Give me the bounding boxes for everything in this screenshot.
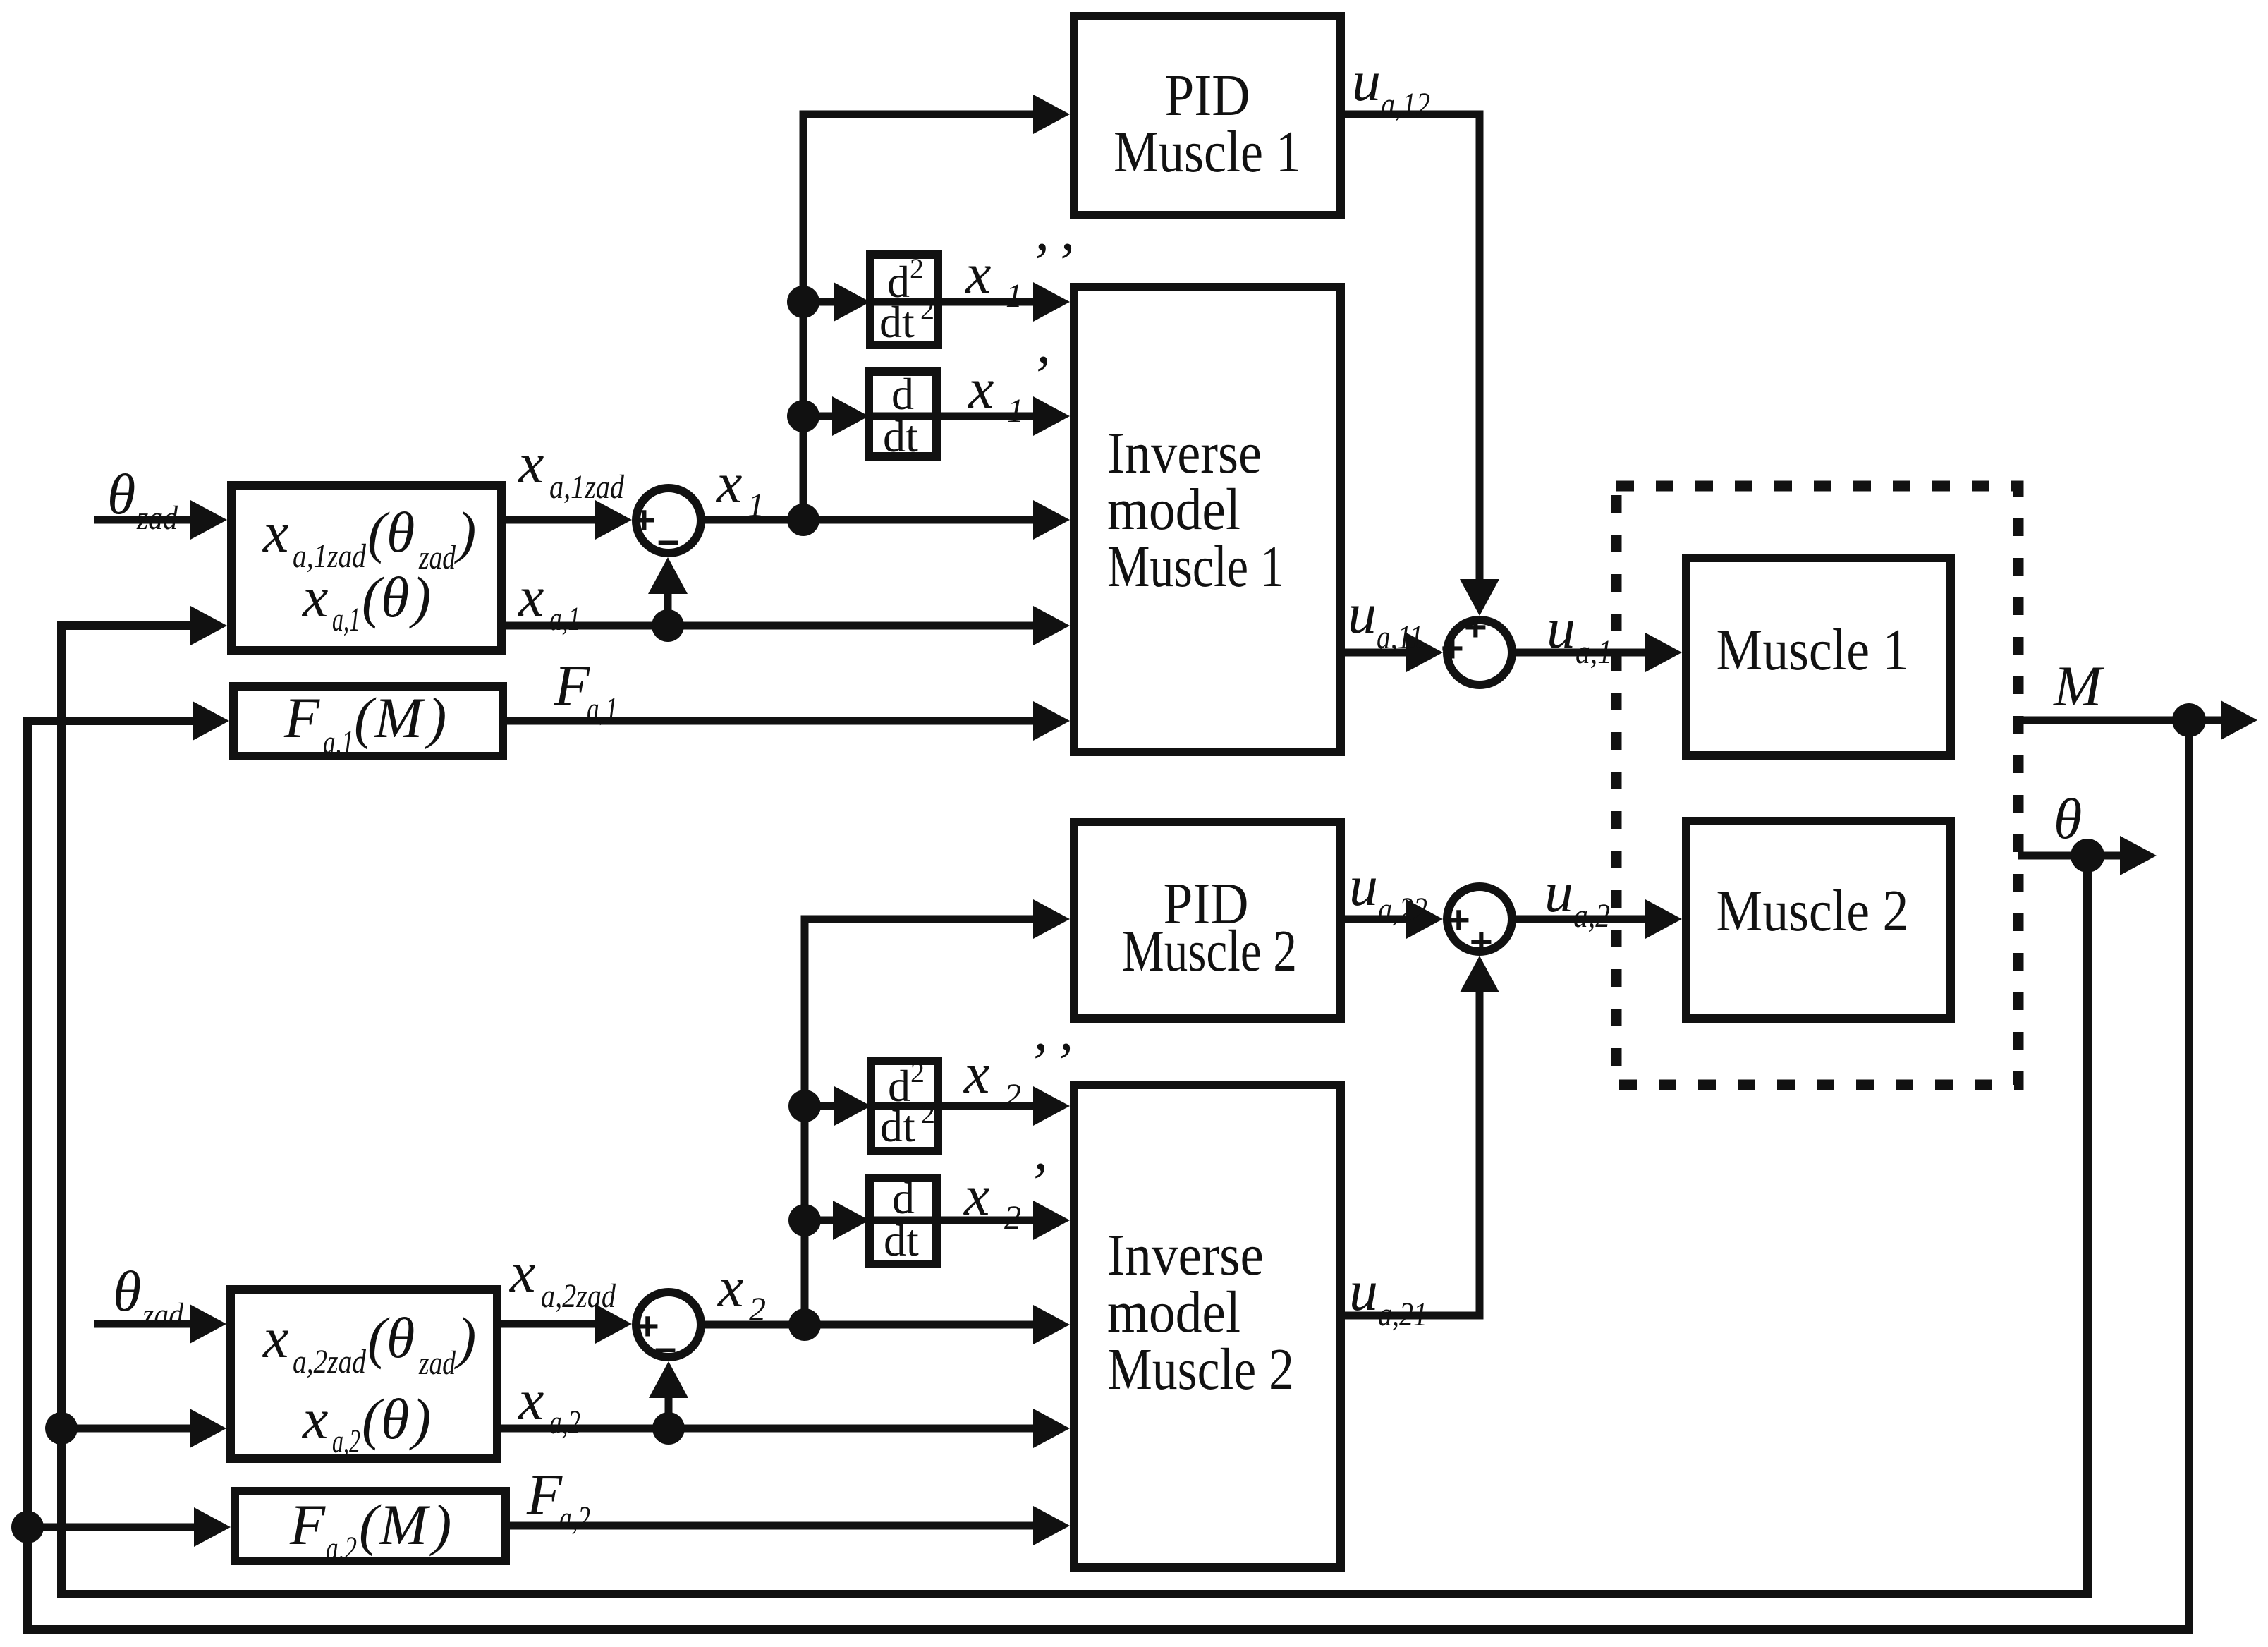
wire x1 vertical branch to PID1 <box>803 114 1044 520</box>
box d/dt (2) <box>870 1178 937 1264</box>
box PID Muscle 2 <box>1074 822 1341 1019</box>
arrowhead x_a,2 into inverse2 <box>1033 1409 1070 1448</box>
arrowhead u_a,1 into Muscle1 <box>1645 633 1682 672</box>
svg-text:u: u <box>1349 853 1378 918</box>
svg-text:u: u <box>1352 49 1381 113</box>
svg-text:2: 2 <box>1004 1199 1021 1236</box>
wire x_a,1 to inverse1 <box>501 622 1044 630</box>
svg-text:dt: dt <box>879 297 915 347</box>
box d2/dt2 (2) <box>871 1061 938 1151</box>
svg-text:a,1: a,1 <box>587 691 618 728</box>
svg-text:x: x <box>262 1306 288 1370</box>
svg-text:a,2: a,2 <box>1573 897 1610 935</box>
wire x_a,2 to inverse2 <box>497 1425 1044 1433</box>
arrowhead F_a,1 into inverse1 <box>1033 701 1070 741</box>
svg-text:x: x <box>963 1041 989 1105</box>
svg-text:–: – <box>657 517 679 561</box>
junction dot ddt-1 <box>787 400 819 432</box>
wire x1pp to inverse1 <box>941 298 1044 306</box>
arrowhead u_a,21 up into sum ua2 <box>1460 956 1499 992</box>
wire x1 from sum1 to inverse1 <box>701 516 1044 524</box>
svg-text:Muscle 1: Muscle 1 <box>1114 119 1301 185</box>
box PID Muscle 1 <box>1074 16 1341 215</box>
svg-text:a,2: a,2 <box>559 1500 590 1537</box>
svg-text:F: F <box>289 1493 326 1557</box>
svg-text:M: M <box>2053 654 2105 718</box>
svg-text:M: M <box>379 1493 431 1557</box>
wire into d2dt2-2 <box>805 1102 841 1110</box>
svg-text:x: x <box>302 1387 328 1451</box>
svg-text:a,1: a,1 <box>323 724 354 761</box>
arrowhead x1p into inverse1 <box>1033 396 1070 436</box>
svg-text:a,2: a,2 <box>326 1530 357 1567</box>
svg-text:a,2zad: a,2zad <box>293 1343 367 1380</box>
arrowhead u_a,2 into Muscle2 <box>1645 899 1682 939</box>
svg-text:x: x <box>518 564 544 628</box>
junction dot x1 line <box>787 504 819 536</box>
svg-text:’’: ’’ <box>1028 231 1086 295</box>
wire x_a,2 stub up into sum2 <box>665 1393 673 1428</box>
svg-text:model: model <box>1107 1280 1240 1345</box>
wire theta output <box>2018 852 2124 860</box>
box F_a,2(M) <box>235 1491 506 1561</box>
arrowhead theta_zad into box2 <box>190 1304 226 1344</box>
svg-text:Muscle 2: Muscle 2 <box>1107 1337 1294 1402</box>
svg-text:u: u <box>1348 581 1377 645</box>
svg-text:F: F <box>283 686 320 750</box>
svg-text:x: x <box>963 1163 989 1227</box>
box Inverse model Muscle 1 <box>1074 287 1341 752</box>
wire x2p to inverse2 <box>939 1217 1044 1224</box>
junction dot theta branch <box>45 1412 78 1445</box>
arrowhead theta output <box>2120 836 2157 875</box>
arrowhead x_a,2zad into sum2 <box>595 1304 632 1344</box>
svg-text:1: 1 <box>748 487 764 524</box>
svg-text:): ) <box>409 565 431 629</box>
svg-text:1: 1 <box>1006 277 1023 315</box>
wire x_a,1 stub up into sum1 <box>664 589 672 626</box>
svg-text:u: u <box>1349 1258 1378 1323</box>
wire theta feedback loop <box>61 626 2087 1594</box>
svg-text:’’: ’’ <box>1027 1031 1085 1095</box>
svg-text:’: ’ <box>1030 344 1049 408</box>
svg-text:a,1: a,1 <box>549 600 580 638</box>
arrowhead into ddt-2 <box>833 1201 870 1240</box>
arrowhead x1pp into inverse1 <box>1033 282 1070 322</box>
arrowhead x_a,1zad into sum1 <box>595 500 632 540</box>
arrowhead up into sum2 <box>649 1361 688 1398</box>
svg-text:dt: dt <box>884 1215 919 1265</box>
svg-text:2: 2 <box>910 253 924 284</box>
arrowhead theta into box1 <box>190 606 227 645</box>
wire u_a,2 to Muscle2 <box>1512 916 1654 923</box>
svg-text:): ) <box>425 686 446 750</box>
arrowhead into d2dt2-1 <box>834 282 870 322</box>
fraction bar d2/dt2 (1) <box>867 298 941 306</box>
fraction bar d/dt (2) <box>867 1217 939 1224</box>
arrowhead F_a,2 into inverse2 <box>1033 1506 1070 1545</box>
summing circle x2 <box>636 1292 701 1357</box>
wire u_a,12 from PID1 down to sum ua1 <box>1341 114 1480 590</box>
svg-text:’: ’ <box>1027 1150 1046 1215</box>
svg-text:zad: zad <box>142 1296 184 1334</box>
wire theta_zad input 2 <box>94 1320 205 1328</box>
junction dot x2 line <box>788 1308 821 1341</box>
svg-text:Muscle 2: Muscle 2 <box>1122 918 1297 984</box>
arrowhead M into Fa1 box <box>193 701 229 741</box>
svg-text:+: + <box>1464 604 1487 649</box>
svg-text:u: u <box>1544 860 1573 924</box>
svg-text:a,2zad: a,2zad <box>541 1277 616 1315</box>
arrowhead theta into box2 <box>190 1409 226 1448</box>
svg-text:a,22: a,22 <box>1378 891 1427 928</box>
svg-text:): ) <box>454 500 476 564</box>
fraction bar d/dt (1) <box>866 413 939 420</box>
wire F_a,2 to inverse2 <box>506 1522 1044 1530</box>
svg-text:zad: zad <box>136 499 178 537</box>
wire x2pp to inverse2 <box>942 1102 1044 1110</box>
svg-text:x: x <box>717 1255 743 1319</box>
junction dot d2dt2-2 <box>788 1090 821 1122</box>
svg-text:θ: θ <box>381 565 409 629</box>
svg-text:): ) <box>429 1493 451 1557</box>
svg-text:a,11: a,11 <box>1377 619 1423 656</box>
svg-text:2: 2 <box>749 1291 766 1328</box>
wire u_a,21 from inverse2 up to sum ua2 <box>1341 982 1480 1315</box>
junction dot ddt-2 <box>788 1204 821 1236</box>
junction dot M output <box>2172 703 2206 737</box>
wire x1p to inverse1 <box>939 413 1044 420</box>
svg-text:1: 1 <box>1007 392 1024 430</box>
svg-text:a,2: a,2 <box>549 1404 580 1441</box>
fraction bar d2/dt2 (2) <box>868 1102 941 1110</box>
svg-text:dt: dt <box>880 1101 915 1151</box>
junction dot d2dt2-1 <box>787 286 819 318</box>
wire theta_zad input 1 <box>94 516 205 524</box>
summing circle x1 <box>636 488 701 553</box>
wire F_a,1 to inverse1 <box>504 717 1044 725</box>
box F_a,1(M) <box>233 686 503 756</box>
svg-text:x: x <box>518 1368 544 1432</box>
svg-text:a,1: a,1 <box>332 601 360 638</box>
arrowhead into PID2 <box>1033 899 1070 939</box>
wire x2 from sum2 to inverse2 <box>701 1321 1044 1329</box>
wire into ddt-2 <box>805 1217 840 1224</box>
wire x2 vertical branch to PID2 <box>805 919 1044 1325</box>
svg-text:θ: θ <box>386 1306 415 1370</box>
svg-text:Muscle 1: Muscle 1 <box>1107 534 1284 600</box>
svg-text:+: + <box>1447 897 1470 942</box>
svg-text:): ) <box>454 1306 476 1370</box>
box Muscle 1 <box>1686 558 1951 755</box>
svg-text:θ: θ <box>386 500 415 564</box>
box d/dt (1) <box>869 372 937 456</box>
svg-text:θ: θ <box>2054 786 2082 851</box>
wire M branch to Fa2 box <box>28 1524 205 1531</box>
wire into ddt-1 <box>803 413 839 420</box>
arrowhead u_a,12 down into sum ua1 <box>1460 579 1499 616</box>
svg-text:a,1: a,1 <box>1575 633 1612 671</box>
svg-text:+: + <box>633 497 656 542</box>
dashed plant boundary box <box>1616 486 2018 1085</box>
svg-text:x: x <box>965 241 991 305</box>
arrowhead into ddt-1 <box>832 396 869 436</box>
wire u_a,11 to sum ua1 <box>1341 649 1415 657</box>
arrowhead x2p into inverse2 <box>1033 1201 1070 1240</box>
summing circle ua2 <box>1447 887 1512 952</box>
svg-text:x: x <box>262 500 288 564</box>
arrowhead into PID1 <box>1033 95 1070 134</box>
svg-text:2: 2 <box>920 293 934 325</box>
summing circle ua1 <box>1447 620 1512 685</box>
svg-text:M: M <box>374 686 426 750</box>
svg-text:F: F <box>526 1462 563 1526</box>
arrowhead M output <box>2221 700 2257 740</box>
svg-text:a,21: a,21 <box>1378 1296 1427 1333</box>
wire M output <box>2018 717 2225 724</box>
box d2/dt2 (1) <box>870 255 938 345</box>
svg-text:): ) <box>409 1387 431 1451</box>
svg-text:θ: θ <box>381 1387 409 1451</box>
box x_a,1zad <box>231 485 501 650</box>
svg-text:a,2: a,2 <box>332 1423 360 1460</box>
arrowhead u_a,22 into sum ua2 <box>1406 899 1443 939</box>
svg-text:Inverse: Inverse <box>1107 1222 1264 1288</box>
svg-text:(: ( <box>359 1493 382 1557</box>
box Inverse model Muscle 2 <box>1074 1085 1341 1567</box>
box x_a,2zad <box>231 1289 497 1459</box>
wire u_a,22 to sum ua2 <box>1341 916 1415 923</box>
svg-text:–: – <box>654 1325 676 1369</box>
arrowhead x_a,1 into inverse1 <box>1033 606 1070 645</box>
svg-text:Muscle 1: Muscle 1 <box>1717 617 1909 683</box>
arrowhead x2 into inverse2 <box>1033 1305 1070 1344</box>
svg-text:2: 2 <box>921 1098 935 1129</box>
svg-text:x: x <box>716 451 742 515</box>
svg-text:a,12: a,12 <box>1381 86 1430 123</box>
arrowhead theta_zad into box1 <box>190 500 227 540</box>
svg-text:Muscle 2: Muscle 2 <box>1717 878 1909 944</box>
wire M feedback loop <box>28 720 2189 1629</box>
arrowhead up into sum1 <box>648 557 688 594</box>
svg-text:x: x <box>302 565 328 629</box>
svg-text:a,1zad: a,1zad <box>549 468 625 506</box>
junction dot x_a,1 <box>652 609 684 642</box>
svg-text:2: 2 <box>910 1057 925 1088</box>
wire u_a,1 to Muscle1 <box>1512 649 1654 657</box>
svg-text:x: x <box>968 356 994 420</box>
arrowhead x1 into inverse1 <box>1033 500 1070 540</box>
svg-text:+: + <box>1441 626 1464 670</box>
arrowhead x2pp into inverse2 <box>1033 1086 1070 1126</box>
box Muscle 2 <box>1686 821 1951 1019</box>
wire into d2dt2-1 <box>803 298 841 306</box>
svg-text:x: x <box>509 1240 535 1304</box>
svg-text:x: x <box>518 431 544 495</box>
svg-text:model: model <box>1107 477 1240 542</box>
junction dot theta output <box>2071 839 2104 873</box>
svg-text:(: ( <box>354 686 377 750</box>
wire x_a,1zad to sum1 <box>501 516 603 524</box>
junction dot x_a,2 <box>652 1412 685 1445</box>
svg-text:+: + <box>1470 919 1493 964</box>
svg-text:θ: θ <box>113 1259 141 1323</box>
svg-text:θ: θ <box>107 462 135 526</box>
svg-text:2: 2 <box>1004 1077 1021 1114</box>
arrowhead into d2dt2-2 <box>834 1086 871 1126</box>
junction dot M branch <box>11 1511 44 1543</box>
wire theta branch to box2 <box>61 1425 199 1433</box>
svg-text:F: F <box>554 653 590 717</box>
svg-text:dt: dt <box>883 411 918 461</box>
wire x_a,2zad to sum2 <box>497 1320 603 1328</box>
svg-text:u: u <box>1547 596 1575 660</box>
svg-text:zad: zad <box>418 1344 456 1382</box>
arrowhead u_a,11 into sum ua1 <box>1406 633 1443 672</box>
arrowhead M into Fa2 box <box>194 1507 231 1547</box>
